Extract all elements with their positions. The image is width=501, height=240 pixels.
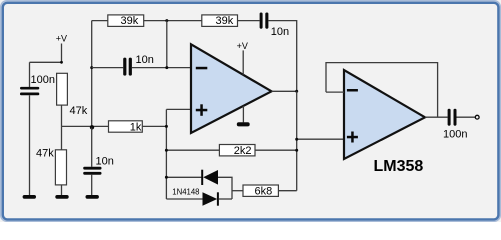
svg-text:1k: 1k: [130, 122, 142, 134]
svg-text:100n: 100n: [443, 129, 467, 141]
junction dot U1B plus input: [295, 138, 298, 141]
ground bar under U1A: [237, 122, 250, 126]
junction dot at C3 branch: [90, 66, 93, 69]
svg-text:+V: +V: [237, 41, 248, 51]
ground bar under C1: [23, 195, 36, 199]
wire U1B output: [425, 116, 448, 118]
wire diode top row right: [218, 177, 232, 199]
resistor R5 1k: [109, 121, 143, 132]
junction dot minus row: [165, 66, 168, 69]
svg-text:10n: 10n: [271, 26, 289, 38]
ground bar under C2: [86, 195, 99, 199]
svg-text:+V: +V: [56, 34, 67, 44]
minus symbol U1A: [196, 67, 208, 70]
minus symbol U1B: [347, 89, 358, 92]
resistor R7 6k8: [243, 185, 278, 196]
wire diode top row left: [166, 176, 202, 178]
op-amp U1B: [344, 70, 425, 159]
wire +V lead down: [61, 44, 63, 63]
junction dot 2k2 right: [295, 149, 298, 152]
capacitor C2 10n (bottom): [83, 167, 101, 175]
wire C4 to right bus corner: [268, 21, 296, 92]
op-amp U1A: [191, 44, 272, 133]
junction dot U1A output at bus: [295, 90, 298, 93]
wire vertical x=166.4 from plus row down to diode bottom row: [165, 109, 167, 199]
svg-text:10n: 10n: [96, 156, 114, 168]
wire 2k2 right: [255, 149, 297, 151]
capacitor C4 10n (top): [260, 13, 269, 29]
resistor R2 47k (lower): [55, 150, 66, 185]
wire top row start: [92, 20, 108, 22]
svg-text:47k: 47k: [36, 148, 54, 160]
resistor R6 2k2: [219, 145, 255, 156]
svg-text:10n: 10n: [136, 54, 154, 66]
svg-text:100n: 100n: [31, 74, 55, 86]
resistor R4 39k: [202, 15, 238, 27]
wire diode bottom row right: [219, 198, 232, 200]
wire plus input row: [166, 108, 191, 110]
wire between R3 and R4: [144, 20, 202, 22]
wire +V pin of U1A: [242, 50, 244, 74]
wire R2 bottom lead: [61, 185, 63, 195]
node +V supply (left): [56, 34, 67, 44]
plus symbol U1B: [347, 132, 358, 143]
svg-text:1N4148: 1N4148: [172, 187, 200, 196]
wire minus row from bus to C3: [92, 67, 124, 69]
wire diode bottom row left: [166, 198, 202, 200]
svg-text:6k8: 6k8: [255, 186, 273, 198]
wire U1B minus stub: [326, 91, 344, 93]
wire C2 bottom lead: [91, 175, 93, 196]
wire C1 top lead: [29, 62, 31, 87]
junction dot diode row left: [165, 176, 168, 179]
capacitor C1 100n: [20, 87, 39, 95]
resistor R1 47k (upper): [57, 73, 68, 105]
wire node row to 1k: [62, 125, 109, 127]
capacitor C3 10n (middle row): [123, 58, 132, 76]
output terminal circle: [475, 115, 479, 119]
wire right bus x=296.7: [296, 91, 298, 190]
junction dot at +V node: [60, 61, 63, 64]
wire drop from top row to minus row: [166, 21, 168, 68]
plus symbol U1A: [196, 104, 208, 116]
wire U1A output: [272, 90, 297, 92]
wire 2k2 left: [166, 149, 219, 151]
wire R2 top lead: [61, 126, 63, 149]
wire 6k8 left from diode loop: [232, 190, 243, 192]
capacitor C5 100n (output): [448, 109, 457, 126]
svg-text:LM358: LM358: [374, 158, 424, 175]
svg-text:39k: 39k: [216, 15, 234, 27]
svg-text:2k2: 2k2: [234, 145, 252, 157]
junction dot at 1k: [165, 125, 168, 128]
wire U1B feedback loop: [326, 63, 438, 118]
wire U1B plus input from bus: [297, 138, 344, 140]
wire ground pin of U1A: [242, 106, 244, 123]
wire C5 to output terminal: [457, 116, 476, 118]
svg-text:39k: 39k: [121, 15, 139, 27]
wire R5 right to vertical: [142, 125, 166, 127]
wire 6k8 right to bus: [278, 190, 296, 192]
wire R1 bottom lead: [61, 105, 63, 126]
svg-text:47k: 47k: [70, 105, 88, 117]
wire R4 to C4: [238, 20, 260, 22]
wire C3 to op-amp minus input: [132, 67, 191, 69]
junction dot 2k2 left: [165, 149, 168, 152]
diode D1 1N4148 (points left): [201, 170, 218, 185]
ground bar under R2: [55, 195, 68, 199]
wire vertical feedback bus x=91.7 top: [91, 21, 93, 128]
wire from +V node left to C1: [30, 61, 62, 63]
junction dot at 1k row (4-way): [90, 125, 94, 129]
wire down to C2: [91, 128, 93, 167]
junction dot top row: [165, 19, 168, 22]
wire C1 bottom lead to ground: [29, 95, 31, 195]
resistor R3 39k: [108, 15, 144, 27]
diode D2 1N4148 (points right): [203, 192, 219, 205]
